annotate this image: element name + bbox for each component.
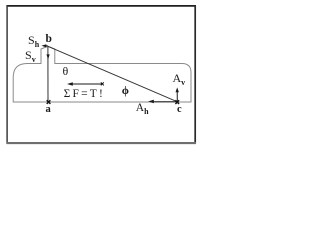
arrow S_h (points left at b)	[41, 44, 47, 47]
arrow A_v (points up at c)	[176, 87, 179, 101]
arrow S_v (points down along mast below b)	[47, 54, 50, 59]
label S_v	[25, 48, 36, 64]
wire: cable line b-c	[48, 46, 178, 102]
label theta	[63, 64, 69, 79]
label sum F = T!	[64, 88, 105, 100]
label phi	[122, 85, 129, 97]
label S_h	[28, 33, 39, 49]
node c (x marker)	[175, 100, 179, 104]
label b	[46, 33, 52, 45]
arrow sum-F (points left above text)	[67, 82, 104, 86]
label c	[177, 104, 182, 115]
node a (x marker)	[47, 100, 51, 104]
outer frame border	[7, 6, 195, 143]
label A_h	[136, 102, 149, 116]
label a	[46, 104, 51, 115]
label A_v	[173, 71, 186, 87]
slab outline (rounded body with antenna bump at b)	[13, 46, 191, 102]
arrow A_h (points left along bottom edge)	[148, 100, 177, 104]
wire: mast line a-b	[47, 46, 49, 102]
